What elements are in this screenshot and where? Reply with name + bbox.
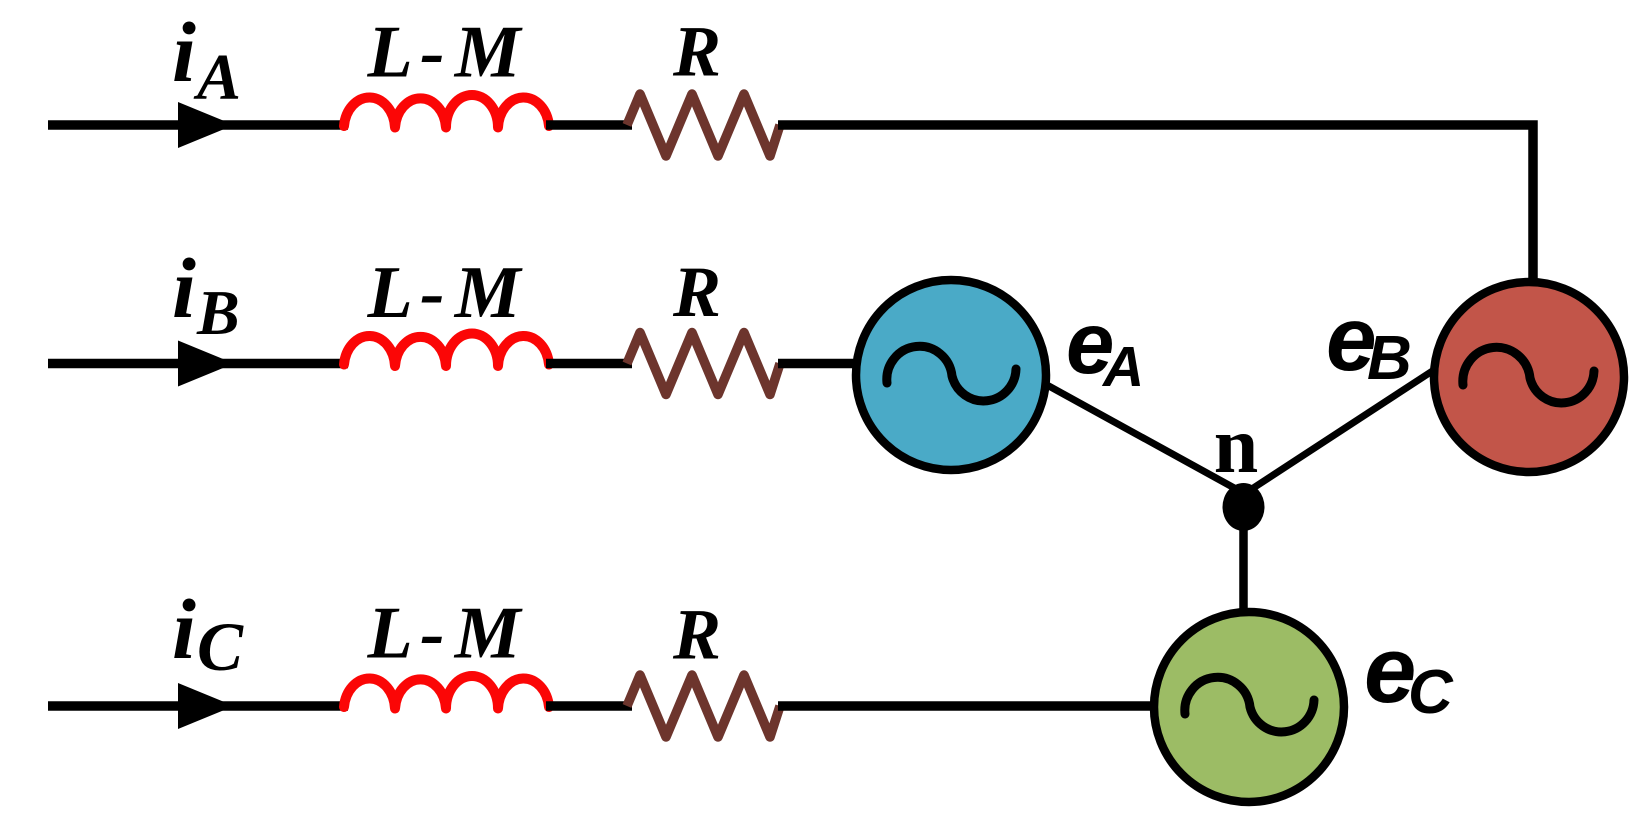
svg-text:L - M: L - M <box>367 252 523 334</box>
svg-text:A: A <box>1101 335 1144 399</box>
svg-text:i: i <box>172 581 196 677</box>
wire diagonal source eA to node n <box>1038 380 1247 495</box>
resistor R phase B <box>627 333 780 395</box>
svg-text:B: B <box>196 277 240 348</box>
svg-text:i: i <box>172 240 196 336</box>
wire phase B left segment <box>48 359 348 369</box>
arrow current direction iC <box>178 683 234 729</box>
resistor R phase C <box>627 675 780 737</box>
ac source eC (green) <box>1154 612 1344 802</box>
svg-text:A: A <box>193 41 241 114</box>
wire phase B to source eA <box>778 359 862 369</box>
svg-text:n: n <box>1214 402 1259 490</box>
svg-text:R: R <box>672 12 721 92</box>
svg-text:R: R <box>672 252 721 332</box>
inductor L-M phase A <box>344 95 549 128</box>
wire vertical node n to source eC <box>1239 505 1248 614</box>
svg-text:i: i <box>172 4 196 100</box>
svg-text:B: B <box>1367 324 1412 393</box>
ac source eA (blue) <box>856 280 1046 470</box>
wire phase C to source eC <box>778 701 1160 711</box>
wire phase C mid <box>546 701 632 711</box>
resistor R phase A <box>627 94 780 156</box>
arrow current direction iA <box>178 102 234 148</box>
svg-text:L - M: L - M <box>367 593 523 675</box>
inductor L-M phase B <box>344 334 549 367</box>
wire phase A right with corner down to source eB <box>778 125 1533 287</box>
sine symbol in eB <box>1463 347 1594 403</box>
svg-text:C: C <box>1408 658 1454 727</box>
arrow current direction iB <box>178 341 234 387</box>
ac source eB (red) <box>1434 282 1624 472</box>
svg-text:R: R <box>672 595 721 675</box>
svg-text:C: C <box>197 609 244 685</box>
svg-text:L - M: L - M <box>367 12 523 94</box>
sine symbol in eA <box>887 346 1016 401</box>
wire phase B mid <box>546 359 632 369</box>
wire phase A mid <box>546 120 632 130</box>
inductor L-M phase C <box>344 676 549 709</box>
node n junction dot <box>1223 483 1265 531</box>
sine symbol in eC <box>1185 677 1314 732</box>
wire phase C left segment <box>48 701 348 711</box>
wire diagonal node n to source eB <box>1241 366 1440 496</box>
wire phase A left segment <box>48 120 348 130</box>
